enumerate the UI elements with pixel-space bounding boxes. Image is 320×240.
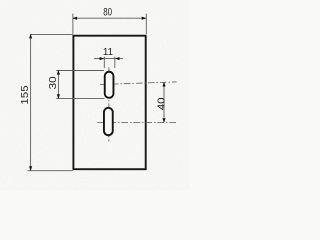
svg-text:11: 11 (103, 47, 114, 58)
dim 80 extension line left (72, 14, 74, 34)
dim 40 line (163, 82, 165, 122)
plate outline (73, 36, 145, 170)
centerline vertical through slots (108, 67, 110, 141)
dim 40 arrow top (162, 82, 165, 87)
svg-text:30: 30 (48, 76, 59, 90)
dim 155 arrow top (29, 34, 32, 39)
dim 11 line (94, 58, 123, 60)
centerline horizontal upper slot (100, 82, 177, 85)
dim 30 arrow bottom (57, 94, 60, 99)
dim 155 extension line top (30, 34, 73, 36)
dim 155 arrow bottom (29, 166, 32, 171)
dim 80 arrow right (142, 17, 147, 20)
dim 155 line (30, 34, 32, 171)
dim 11 arrow right (115, 57, 120, 60)
dim 80 extension line right (145, 14, 147, 34)
svg-text:155: 155 (20, 85, 31, 105)
svg-text:80: 80 (103, 7, 112, 19)
slot lower (11x30 obround) (104, 108, 113, 135)
dim 80 arrow left (72, 17, 77, 20)
dim 11 extension line left (103, 57, 105, 68)
dim 30 extension line top (56, 70, 104, 72)
dim 80 line (73, 17, 146, 19)
dim 11 arrow left (100, 57, 105, 60)
dim 30 arrow top (57, 70, 60, 75)
centerline horizontal lower slot (98, 122, 177, 124)
dim 30 line (57, 70, 59, 98)
svg-text:40: 40 (156, 97, 167, 110)
dim 40 arrow bottom (162, 118, 165, 123)
dim 30 extension line bottom (56, 97, 104, 99)
slot upper (11x30 obround) (105, 72, 114, 98)
dim 155 extension line bottom (28, 170, 73, 172)
dim 11 extension line right (114, 57, 116, 68)
